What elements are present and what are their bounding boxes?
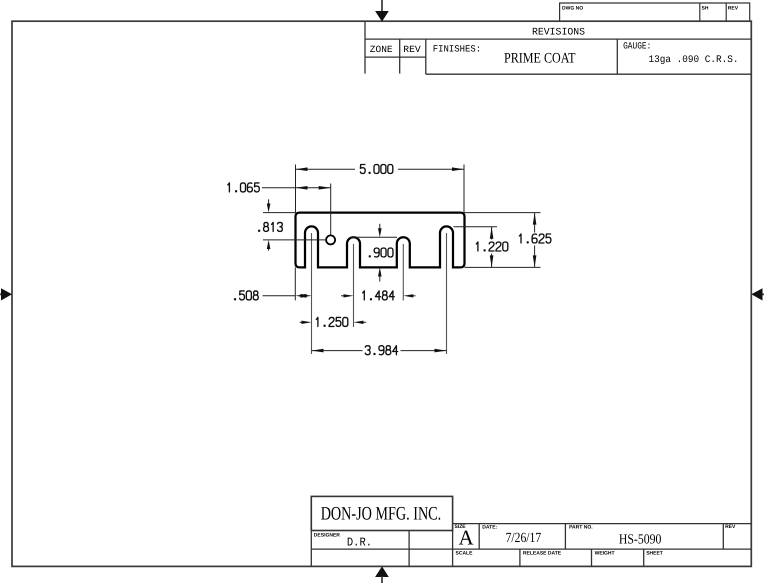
- dimension 1.220: [454, 227, 508, 268]
- svg-text:A: A: [459, 526, 475, 550]
- svg-text:HS-5090: HS-5090: [619, 533, 662, 548]
- slot 2 centerline: [353, 244, 355, 327]
- svg-text:7/26/17: 7/26/17: [506, 531, 542, 546]
- centering mark bottom: [375, 566, 389, 583]
- svg-text:REVISIONS: REVISIONS: [532, 28, 585, 39]
- dimension .900: [350, 224, 397, 282]
- title block designer row: [311, 531, 751, 567]
- svg-text:PART NO.: PART NO.: [569, 525, 593, 531]
- title block bottom row: [456, 549, 663, 566]
- svg-text:WEIGHT: WEIGHT: [595, 550, 615, 556]
- dimension .813: [259, 199, 326, 250]
- dwg-no strip: [560, 3, 750, 21]
- svg-text:PRIME COAT: PRIME COAT: [504, 51, 576, 67]
- svg-text:GAUGE:: GAUGE:: [623, 41, 651, 52]
- title block company box: [311, 496, 452, 530]
- hole: [326, 235, 335, 244]
- dimension 1.250: [300, 317, 367, 326]
- svg-text:D.R.: D.R.: [347, 536, 372, 550]
- dimension 1.625: [465, 213, 551, 268]
- dimension 1.484: [341, 291, 416, 300]
- svg-text:13ga .090 C.R.S.: 13ga .090 C.R.S.: [649, 55, 739, 66]
- centering mark right: [751, 288, 764, 300]
- dimension 1.065: [228, 183, 331, 235]
- svg-text:DATE:: DATE:: [482, 525, 497, 531]
- svg-text:DESIGNER: DESIGNER: [314, 532, 341, 538]
- centering mark left: [0, 288, 12, 300]
- svg-text:ZONE: ZONE: [370, 44, 393, 55]
- svg-text:RELEASE DATE: RELEASE DATE: [523, 550, 562, 556]
- svg-text:DON-JO MFG. INC.: DON-JO MFG. INC.: [321, 504, 442, 525]
- slot 1 centerline: [311, 233, 313, 354]
- revisions table: [365, 21, 751, 74]
- svg-text:FINISHES:: FINISHES:: [433, 44, 481, 55]
- dimension 5.000: [296, 165, 465, 213]
- svg-text:SCALE: SCALE: [456, 550, 474, 556]
- slot 4 centerline: [446, 233, 448, 354]
- centering mark top: [375, 0, 389, 22]
- part outline: [296, 213, 465, 268]
- svg-text:REV: REV: [725, 524, 736, 530]
- dimension 3.984: [312, 346, 447, 355]
- dimension .508: [235, 267, 312, 300]
- svg-text:REV: REV: [728, 6, 739, 12]
- svg-text:SHEET: SHEET: [646, 550, 663, 556]
- svg-text:DWG NO: DWG NO: [562, 6, 583, 12]
- title block size/date/part row: [453, 524, 752, 550]
- slot 3 centerline: [402, 244, 404, 301]
- svg-text:SH: SH: [702, 6, 709, 12]
- svg-text:REV: REV: [403, 44, 421, 55]
